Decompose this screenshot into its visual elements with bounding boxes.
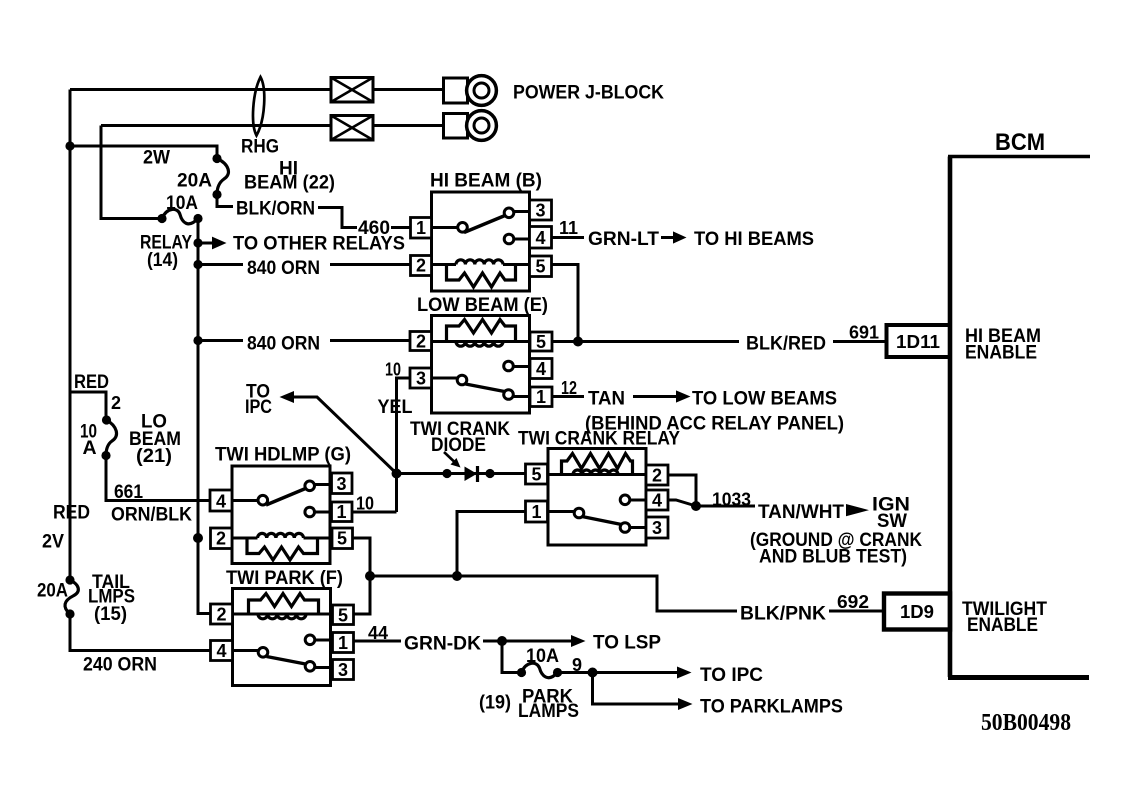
node: to-other-relays branch — [193, 238, 202, 247]
svg-text:(21): (21) — [136, 445, 172, 467]
wire: main distribution vertical — [198, 219, 211, 614]
wire: drop to park lamps fuse — [502, 641, 522, 673]
relay coil TWI HDLMP — [232, 537, 332, 540]
node: diode cathode — [485, 469, 494, 478]
svg-text:2: 2 — [216, 605, 226, 625]
svg-text:ENABLE: ENABLE — [967, 614, 1038, 636]
svg-text:10A: 10A — [166, 192, 198, 214]
fusible link 1 (crossed box) — [331, 78, 373, 103]
arrow to IGN SW — [846, 504, 869, 516]
svg-text:10A: 10A — [526, 645, 559, 667]
svg-text:5: 5 — [535, 257, 545, 277]
svg-text:1: 1 — [536, 387, 546, 407]
pin 2 — [410, 332, 432, 351]
pin 2 — [646, 465, 668, 485]
svg-text:5: 5 — [338, 606, 348, 626]
fuse PARK LAMPS (19) 10A — [522, 663, 558, 677]
svg-text:20A: 20A — [37, 580, 68, 602]
wire: left feed vertical — [69, 90, 72, 581]
wire: second feed vertical drop — [101, 126, 162, 219]
svg-text:10: 10 — [356, 494, 374, 514]
connector 1D11 — [887, 325, 951, 357]
svg-text:5: 5 — [337, 529, 347, 549]
svg-text:840 ORN: 840 ORN — [247, 257, 320, 279]
relay coil HI BEAM — [432, 263, 530, 266]
connector 1D9 — [884, 594, 950, 630]
fuse RELAY (14) 10A — [162, 209, 198, 224]
svg-text:IPC: IPC — [245, 396, 272, 418]
svg-text:2: 2 — [416, 256, 426, 276]
pin 5 — [526, 464, 548, 484]
resistor HI BEAM — [447, 265, 516, 288]
wire: pin 4 GRN-LT — [552, 236, 585, 239]
svg-text:TO OTHER RELAYS: TO OTHER RELAYS — [233, 233, 405, 255]
svg-text:TWI PARK (F): TWI PARK (F) — [226, 567, 343, 589]
svg-text:YEL: YEL — [378, 396, 413, 418]
wire: pin 1 44 GRN-DK — [354, 640, 503, 643]
svg-text:TAN/WHT: TAN/WHT — [758, 501, 844, 523]
svg-text:1: 1 — [338, 633, 348, 653]
svg-text:TWI CRANK RELAY: TWI CRANK RELAY — [518, 428, 680, 450]
node: GRN-DK branch — [497, 636, 507, 646]
svg-text:TO LOW BEAMS: TO LOW BEAMS — [692, 388, 837, 410]
svg-text:1: 1 — [531, 502, 541, 522]
svg-text:2: 2 — [652, 466, 662, 486]
svg-text:1: 1 — [416, 218, 426, 238]
svg-text:840 ORN: 840 ORN — [247, 333, 320, 355]
pin 4 — [530, 227, 552, 249]
pin 5 — [530, 332, 552, 351]
svg-text:ENABLE: ENABLE — [965, 342, 1037, 364]
pin 2 — [211, 604, 233, 624]
wire: horizontal 1 between link and terminal — [373, 88, 444, 91]
node: 840 ORN branch 1 — [193, 260, 202, 269]
svg-text:DIODE: DIODE — [431, 434, 486, 456]
resistor TWI CRANK — [562, 454, 633, 475]
wire: fuse to branch node — [558, 671, 593, 674]
svg-text:TO LSP: TO LSP — [593, 632, 661, 654]
arrow from DIODE label — [444, 452, 454, 462]
svg-text:1: 1 — [336, 502, 346, 522]
node: park lamps branch — [588, 668, 598, 678]
wire: YEL junction to crank relay pin 5 — [397, 472, 526, 475]
svg-text:50B00498: 50B00498 — [981, 709, 1071, 736]
pin 4 — [530, 359, 552, 379]
svg-text:TO IPC: TO IPC — [700, 664, 763, 686]
arrow to low beams — [633, 395, 677, 398]
svg-text:BLK/ORN: BLK/ORN — [236, 198, 315, 220]
svg-text:3: 3 — [338, 660, 348, 680]
switch contacts LOW BEAM — [432, 377, 458, 380]
relay coil TWI CRANK — [548, 473, 647, 476]
arrow to parklamps — [593, 673, 679, 705]
svg-text:691: 691 — [849, 323, 879, 343]
fuse TAIL LMPS (15) 20A — [65, 580, 78, 614]
wire: 240 ORN to TWI PARK pin 4 — [70, 614, 211, 651]
pin 1 — [530, 387, 552, 407]
wire: pin 1 TAN — [552, 395, 584, 398]
wire: branch to 2W breaker — [70, 146, 217, 159]
pin 1 — [526, 501, 548, 522]
fusible link 2 (crossed box) — [331, 116, 373, 141]
svg-text:2: 2 — [216, 529, 226, 549]
switch contacts TWI CRANK — [548, 510, 576, 513]
module BCM outline — [948, 157, 953, 678]
svg-text:BLK/RED: BLK/RED — [746, 333, 826, 355]
wire: 1033 TAN/WHT — [696, 505, 755, 508]
svg-text:LAMPS: LAMPS — [518, 700, 579, 722]
ring terminal 1 — [444, 78, 468, 103]
wire: 661 ORN/BLK to TWI HDLMP pin 4 — [106, 456, 210, 501]
svg-text:TO HI BEAMS: TO HI BEAMS — [694, 228, 814, 250]
switch contacts HI BEAM — [432, 226, 459, 229]
svg-text:(14): (14) — [147, 249, 178, 271]
svg-text:RED: RED — [53, 502, 90, 524]
fuse LO BEAM (21) 10A — [106, 420, 117, 456]
svg-text:5: 5 — [536, 332, 546, 352]
pin 4 — [210, 490, 232, 511]
arrow to other relays — [198, 242, 213, 245]
pin 5 — [332, 528, 353, 549]
pin 2 — [211, 528, 233, 549]
wire: diagonal to IPC — [293, 397, 397, 474]
svg-text:11: 11 — [559, 218, 578, 238]
svg-text:2: 2 — [416, 332, 426, 352]
wire: 460 into pin 1 — [391, 226, 411, 229]
pin 1 — [333, 633, 354, 653]
wire: second feed horizontal — [101, 124, 331, 127]
svg-text:3: 3 — [416, 369, 426, 389]
svg-text:LOW BEAM (E): LOW BEAM (E) — [417, 294, 548, 316]
pin 4 — [646, 490, 668, 510]
circuit breaker 2W 20A — [217, 159, 228, 195]
svg-text:4: 4 — [652, 491, 662, 511]
node: hi beam enable junction — [573, 337, 583, 347]
node: 1033 junction — [691, 501, 701, 511]
wire: breaker to BLK/ORN label — [217, 195, 233, 207]
svg-text:ORN/BLK: ORN/BLK — [111, 504, 192, 526]
node: pin 2 junction on distribution line — [193, 533, 203, 543]
svg-text:4: 4 — [535, 228, 545, 248]
svg-text:2: 2 — [111, 393, 121, 413]
svg-text:2V: 2V — [42, 531, 64, 553]
svg-text:3: 3 — [652, 518, 662, 538]
svg-text:BCM: BCM — [995, 129, 1045, 156]
wire: twilight enable BLK/PNK — [370, 576, 884, 611]
resistor LOW BEAM — [447, 320, 516, 342]
svg-text:4: 4 — [216, 492, 226, 512]
wire: pin 1 to twilight line — [457, 512, 526, 577]
switch contacts TWI PARK — [233, 649, 259, 652]
svg-text:HI BEAM (B): HI BEAM (B) — [430, 170, 542, 192]
ring terminal 2 — [444, 114, 468, 139]
pin 5 — [530, 256, 552, 277]
svg-text:TO PARKLAMPS: TO PARKLAMPS — [700, 696, 843, 718]
node: 840 ORN branch 2 — [193, 336, 202, 345]
pin 3 — [530, 200, 552, 220]
svg-text:12: 12 — [561, 378, 577, 398]
svg-text:GRN-DK: GRN-DK — [404, 633, 481, 655]
svg-text:3: 3 — [535, 201, 545, 221]
svg-text:692: 692 — [837, 592, 869, 612]
wire: pin 2 loop to 1033 — [668, 475, 696, 506]
pin 5 — [333, 605, 354, 625]
pin 1 — [411, 218, 432, 239]
wire: 840 ORN to LOW BEAM pin 2 — [198, 339, 410, 342]
svg-text:BLK/PNK: BLK/PNK — [740, 603, 826, 625]
svg-text:POWER J-BLOCK: POWER J-BLOCK — [513, 83, 664, 104]
diode TWI CRANK — [465, 467, 478, 482]
svg-text:10: 10 — [385, 360, 401, 380]
svg-text:RHG: RHG — [241, 136, 279, 158]
svg-text:A: A — [83, 437, 97, 459]
grommet RHG — [253, 77, 264, 136]
svg-text:TAN: TAN — [588, 388, 625, 410]
wire: pin 5 down to TWI PARK pin 5 — [353, 538, 371, 614]
node: feed junction — [65, 141, 74, 150]
svg-text:BEAM (22): BEAM (22) — [244, 172, 335, 194]
svg-text:1033: 1033 — [712, 490, 751, 510]
wire: pin 5 down to low beam output — [552, 265, 579, 342]
svg-text:3: 3 — [336, 474, 346, 494]
resistor TWI HDLMP — [247, 538, 318, 560]
node: YEL junction — [392, 469, 402, 479]
wire: top feed horizontal 1 — [70, 88, 331, 91]
wire: BLK/RED to BCM — [552, 340, 887, 343]
svg-text:44: 44 — [368, 623, 388, 643]
svg-text:5: 5 — [531, 465, 541, 485]
wire: horizontal 2 between link and terminal — [373, 124, 444, 127]
svg-text:1D9: 1D9 — [900, 602, 934, 622]
pin 4 — [211, 641, 233, 661]
pin 3 — [332, 473, 353, 494]
svg-text:240 ORN: 240 ORN — [83, 654, 157, 676]
arrow to hi beams — [661, 236, 675, 239]
svg-text:(15): (15) — [94, 603, 127, 625]
pin 3 — [646, 517, 668, 538]
wire: pin 4 to 1033 node — [668, 500, 696, 506]
svg-text:1D11: 1D11 — [896, 332, 940, 352]
node: diode anode — [442, 469, 451, 478]
arrow to LSP — [502, 640, 572, 643]
wire: BLK/ORN elbow to 460 — [318, 208, 357, 228]
svg-text:20A: 20A — [177, 170, 212, 192]
pin 1 — [332, 502, 353, 522]
svg-text:(19): (19) — [479, 692, 511, 714]
svg-text:661: 661 — [114, 481, 143, 503]
svg-text:2W: 2W — [143, 147, 171, 169]
pin 2 — [411, 256, 432, 276]
arrow to IPC (bottom) — [593, 671, 679, 674]
relay coil TWI PARK — [233, 613, 333, 616]
wire: pin 1 to YEL line — [352, 473, 397, 512]
svg-text:RED: RED — [74, 371, 109, 393]
switch contacts TWI HDLMP — [232, 499, 258, 502]
resistor TWI PARK — [249, 594, 319, 615]
svg-text:4: 4 — [536, 359, 546, 379]
pin 3 — [333, 660, 354, 680]
node: twilight branch — [365, 571, 375, 581]
wire: 840 ORN to HI BEAM pin 2 — [198, 263, 411, 266]
pin 3 — [410, 368, 432, 388]
node: twilight line junction — [452, 571, 462, 581]
svg-text:AND BLUB TEST): AND BLUB TEST) — [759, 546, 907, 568]
wire: branch to LO BEAM fuse — [70, 392, 106, 420]
wire: pin 3 YEL drop — [397, 378, 411, 473]
svg-text:TWI HDLMP (G): TWI HDLMP (G) — [215, 444, 351, 466]
svg-text:4: 4 — [216, 641, 226, 661]
relay coil LOW BEAM — [432, 340, 531, 343]
svg-text:GRN-LT: GRN-LT — [588, 228, 659, 250]
